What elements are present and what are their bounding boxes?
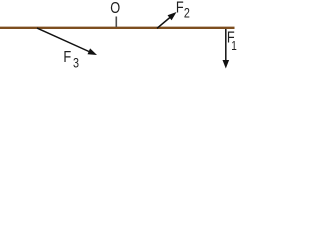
- svg-text:2: 2: [184, 5, 190, 20]
- svg-text:1: 1: [231, 40, 237, 53]
- force F1 arrow (straight down at right end of beam): [223, 29, 230, 69]
- force F2 arrow (up-right from beam): [157, 12, 177, 28]
- force F3 arrow (down-right from beam): [37, 28, 97, 55]
- pivot tick at O: [115, 17, 117, 28]
- svg-text:F: F: [63, 49, 71, 67]
- svg-text:O: O: [110, 0, 120, 17]
- svg-text:3: 3: [73, 55, 79, 70]
- svg-text:F: F: [176, 0, 184, 17]
- beam (horizontal brown rod): [0, 27, 235, 29]
